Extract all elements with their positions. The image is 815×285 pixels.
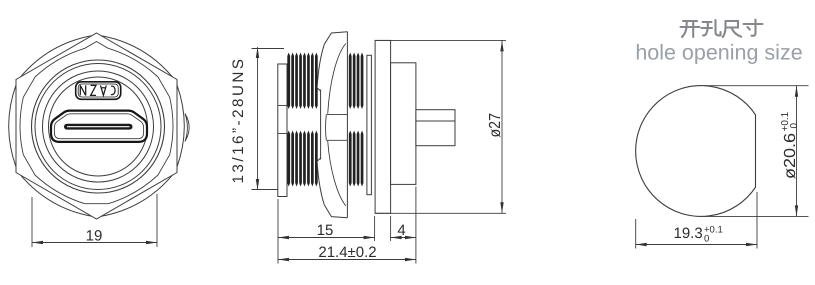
dimension 21.4+-0.2: dim line <box>278 259 416 261</box>
sealing o-ring <box>367 55 372 194</box>
dimension 4: extension line <box>390 216 392 241</box>
HDMI port outline <box>51 111 147 142</box>
nut left silhouette lower wing <box>317 158 324 205</box>
dimension 15: extension lines <box>277 199 279 264</box>
nut left silhouette upper wing <box>317 44 324 91</box>
second face circle <box>35 64 161 190</box>
dimension o27: extension lines <box>375 39 506 41</box>
dimension o20.6: text (rotated, with tolerance) <box>780 111 800 179</box>
thread section 2 (right) <box>349 53 352 110</box>
dimension 13/16-28UNS: dim line <box>257 47 259 190</box>
svg-text:19: 19 <box>86 228 103 245</box>
nut chamfer curves <box>328 44 346 114</box>
dimension 19.3: extension lines <box>635 219 637 249</box>
dimension o20.6: extension lines <box>704 85 809 87</box>
dimension o27: dim line <box>501 40 503 213</box>
recess circle <box>43 71 154 182</box>
end collar ring (side view) <box>278 64 287 197</box>
CAZN logo box <box>76 82 121 100</box>
nut right edge <box>346 32 348 218</box>
CAZN logo text (rotated 180) <box>80 85 115 95</box>
dimension 19: extension lines <box>31 197 33 247</box>
dimension 4: dim line <box>391 237 416 239</box>
right side lobe crescent <box>185 114 189 142</box>
thread section 1 (left) <box>287 53 290 110</box>
svg-text:ø27: ø27 <box>487 113 504 138</box>
gland nut inner profile line <box>20 42 173 204</box>
flange plate (o27 disc, side) <box>375 40 391 213</box>
svg-text:4: 4 <box>397 222 405 239</box>
title chinese (drawn strokes): kai kong chi cun <box>681 21 700 37</box>
dimension 19.3: dim line <box>636 244 757 246</box>
gland nut lobe arcs <box>9 36 185 216</box>
svg-text:hole opening size: hole opening size <box>635 41 802 65</box>
nut stem edge in channel <box>320 90 322 160</box>
D-hole outline <box>636 86 756 217</box>
svg-text:15: 15 <box>317 222 334 239</box>
dimension 15: dim line <box>278 237 375 239</box>
dimension 13/16-28UNS: text (rotated) <box>230 56 247 183</box>
outer face circle <box>32 60 165 193</box>
thread extension lines <box>252 48 285 50</box>
dimension 19: dim line <box>32 242 157 244</box>
HDMI slot <box>64 124 133 130</box>
dimension o27: text <box>487 113 504 138</box>
mounting block (4mm) <box>391 63 416 185</box>
gland nut hex outline (front view) <box>16 33 177 219</box>
HDMI port inner line <box>54 114 143 139</box>
svg-text:0: 0 <box>789 123 800 129</box>
nut slot window <box>326 115 348 141</box>
rear connector stub <box>416 110 455 146</box>
dimension o20.6: dim line <box>796 86 798 217</box>
gland nut body fill (side view) <box>317 32 347 218</box>
svg-text:0: 0 <box>704 234 709 245</box>
inner circle <box>49 77 148 176</box>
nut bottom face <box>324 205 347 218</box>
nut top face <box>324 32 347 45</box>
svg-text:21.4±0.2: 21.4±0.2 <box>318 244 376 261</box>
svg-text:19.3: 19.3 <box>674 225 703 242</box>
svg-text:13/16”-28UNS: 13/16”-28UNS <box>230 56 247 183</box>
svg-text:ø20.6: ø20.6 <box>782 133 799 179</box>
